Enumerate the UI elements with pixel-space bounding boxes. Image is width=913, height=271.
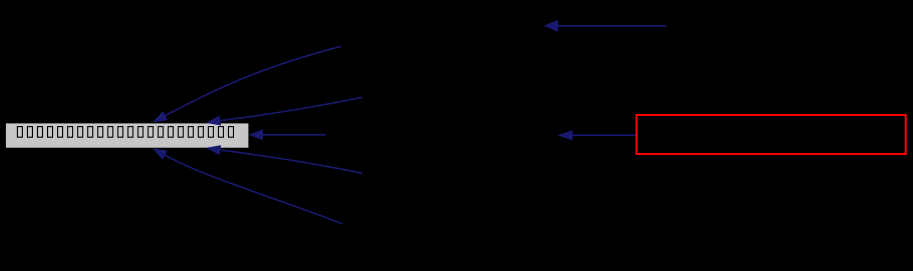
edge E1 (curved arrow to top-left of gray box) <box>165 46 341 115</box>
cell 2 (tofu glyph box) <box>27 127 32 138</box>
cell 22 (tofu glyph box) <box>228 127 233 138</box>
cell 15 (tofu glyph box) <box>158 127 163 138</box>
cell 1 (tofu glyph box) <box>17 127 22 138</box>
cell 9 (tofu glyph box) <box>98 127 103 138</box>
edge E7 (arrow from red box) <box>573 134 636 136</box>
cell 7 (tofu glyph box) <box>78 127 83 138</box>
cell 20 (tofu glyph box) <box>208 127 213 138</box>
cell 5 (tofu glyph box) <box>58 127 63 138</box>
edge E6 (top-right horizontal arrow) <box>558 25 666 27</box>
cell 21 (tofu glyph box) <box>218 127 223 138</box>
node N2: red truncation box <box>637 115 906 154</box>
edge E5 (curved arrow to bottom-left of gray box) <box>165 155 342 224</box>
edge E2 (arrow to top-right of gray box) <box>220 97 362 120</box>
cell 8 (tofu glyph box) <box>88 127 93 138</box>
cell 4 (tofu glyph box) <box>48 127 53 138</box>
cell 14 (tofu glyph box) <box>148 127 153 138</box>
cell 6 (tofu glyph box) <box>68 127 73 138</box>
cell 13 (tofu glyph box) <box>138 127 143 138</box>
cell 12 (tofu glyph box) <box>128 127 133 138</box>
cell 17 (tofu glyph box) <box>178 127 183 138</box>
cell 11 (tofu glyph box) <box>118 127 123 138</box>
edge E4 (arrow to bottom-right of gray box) <box>220 150 362 173</box>
node N1: gray record box <box>6 123 249 147</box>
cell 18 (tofu glyph box) <box>188 127 193 138</box>
edge E3 (horizontal arrow to right edge of gray box) <box>263 134 326 136</box>
cell 16 (tofu glyph box) <box>168 127 173 138</box>
cell 19 (tofu glyph box) <box>198 127 203 138</box>
cell 3 (tofu glyph box) <box>38 127 43 138</box>
cell 10 (tofu glyph box) <box>108 127 113 138</box>
